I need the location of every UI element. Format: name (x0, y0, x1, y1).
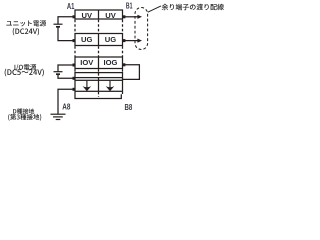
svg-text:B1: B1 (126, 2, 133, 11)
svg-text:UV: UV (105, 11, 116, 20)
svg-text:B8: B8 (125, 103, 133, 112)
svg-text:IOV: IOV (80, 58, 94, 67)
svg-text:A8: A8 (62, 103, 71, 112)
svg-text:UG: UG (81, 35, 92, 44)
svg-text:IOG: IOG (104, 58, 118, 67)
svg-text:A1: A1 (67, 2, 75, 11)
svg-text:UG: UG (105, 35, 116, 44)
svg-text:UV: UV (81, 11, 92, 20)
